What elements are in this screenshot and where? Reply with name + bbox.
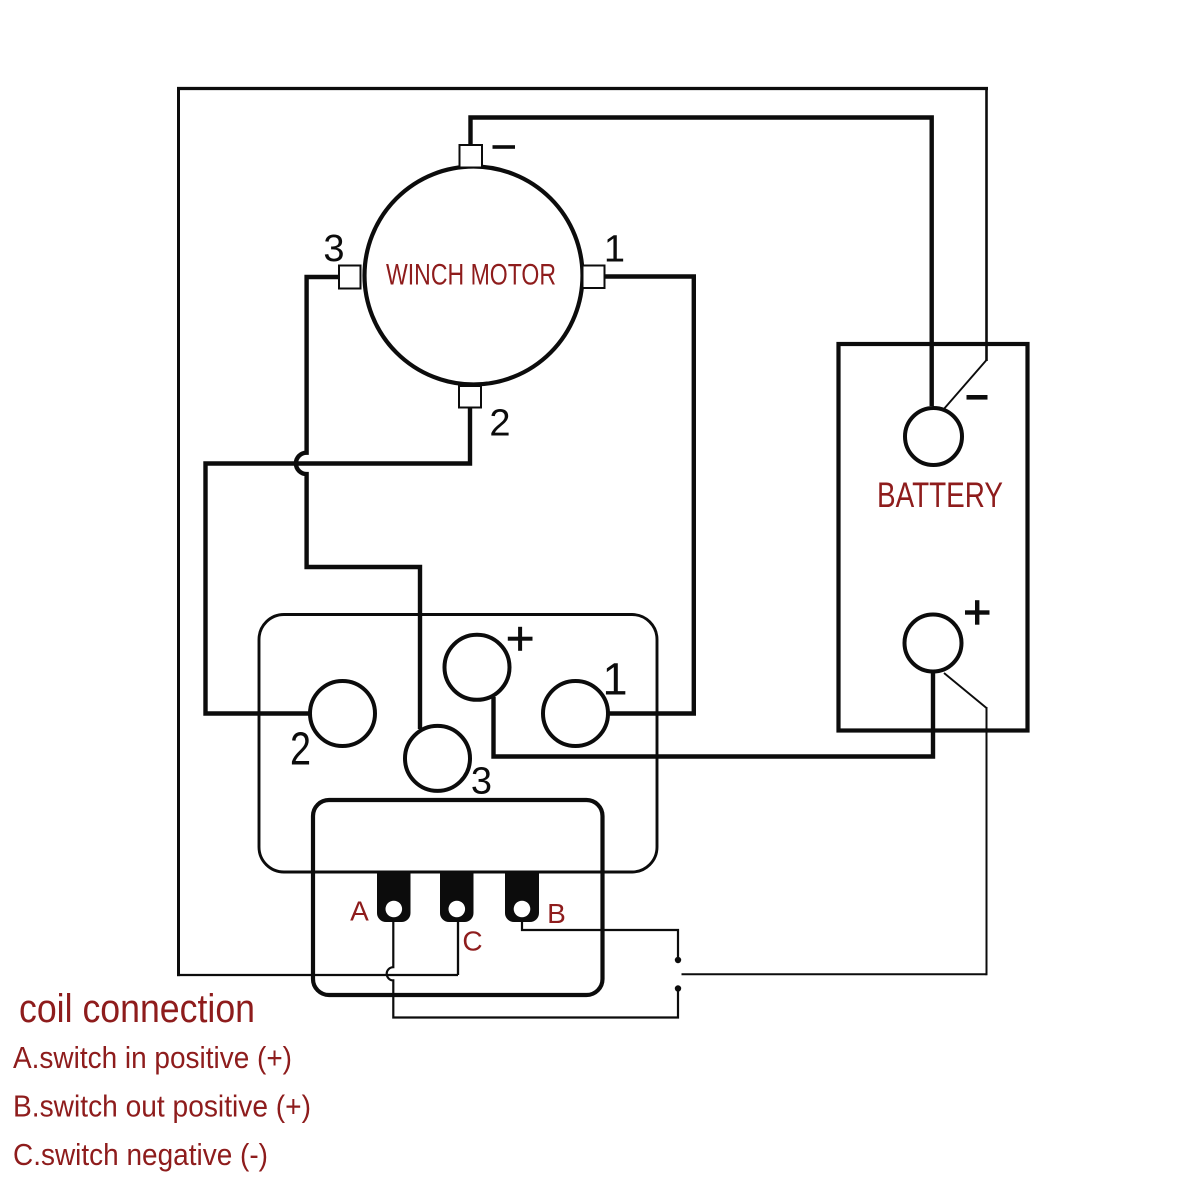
solenoid coil housing box [313,800,603,995]
battery positive post circle [905,615,962,672]
wire: battery positive to solenoid plus [494,672,934,757]
wire: right border lower segment from battery positive [986,707,988,975]
motor terminal post 1 (right) [583,266,605,289]
svg-text:3: 3 [471,761,492,803]
motor terminal post (negative, top) [460,145,483,168]
svg-text:B: B [547,898,566,929]
svg-text:1: 1 [602,654,627,705]
motor terminal post 2 (bottom) [459,386,481,408]
label: minus at motor negative post [493,145,516,149]
svg-text:coil connection: coil connection [19,987,255,1031]
battery box [839,344,1028,731]
label: battery plus [965,600,990,625]
wire: motor terminal 3 to solenoid contact 3 (with hop) [296,277,420,729]
solenoid contact 1 circle [543,681,608,746]
svg-text:2: 2 [290,723,311,775]
svg-text:3: 3 [323,228,344,270]
wire: motor terminal 1 to solenoid contact 1 [605,277,694,714]
coil terminal tab B [505,873,539,922]
wire: bottom-left border segment to C terminal [177,974,458,976]
wire: switch common feed [682,973,987,975]
motor terminal post 3 (left) [339,266,361,289]
svg-text:WINCH MOTOR: WINCH MOTOR [386,259,556,292]
solenoid contact 2 circle [310,681,375,746]
svg-text:1: 1 [604,229,625,271]
svg-text:A: A [350,896,369,927]
motor body circle [365,167,583,385]
coil terminal tab C [440,873,474,922]
wire: coil C to bottom border [457,922,459,975]
solenoid contact plus circle [445,635,510,700]
svg-text:B.switch out positive (+): B.switch out positive (+) [13,1089,311,1124]
wire: left border (negative loop left side) [177,87,180,976]
wire: motor negative terminal to battery negative [471,118,932,407]
svg-text:2: 2 [489,403,510,445]
wire: top border (battery negative loop top) [177,87,988,90]
solenoid contact 3 circle [405,726,470,791]
wire: diagonal lead from battery positive post [944,673,987,708]
wire: right border upper segment into battery [985,87,988,361]
wire: diagonal lead to battery negative post [943,360,987,410]
svg-text:BATTERY: BATTERY [877,476,1003,515]
switch upper contact dot [675,957,681,963]
coil terminal tab A [377,873,411,922]
solenoid body box [259,615,657,873]
svg-text:C: C [462,926,482,957]
svg-text:C.switch negative (-): C.switch negative (-) [13,1137,268,1172]
label: battery minus [967,395,988,400]
battery negative post circle [905,408,962,465]
wire: coil A to switch lower contact (with hop) [387,922,678,1018]
wire: motor terminal 2 to solenoid contact 2 [206,408,471,714]
svg-text:A.switch in positive (+): A.switch in positive (+) [13,1040,292,1075]
switch lower contact dot [675,985,681,991]
wire: coil B to switch upper contact [522,922,678,957]
label: solenoid plus [508,627,533,651]
